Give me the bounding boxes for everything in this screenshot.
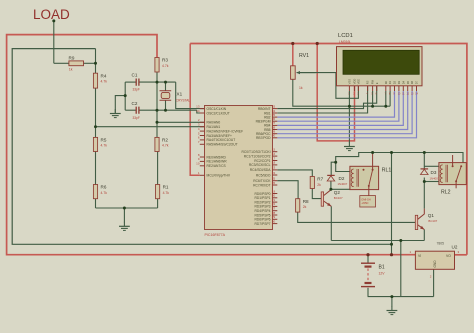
wire C1-C2 left column: [124, 82, 126, 110]
wire RB1 to LCD RS: [277, 86, 367, 113]
svg-text:D4: D4: [401, 80, 405, 84]
svg-text:RE0/AN5/RD: RE0/AN5/RD: [207, 155, 227, 159]
svg-text:15: 15: [272, 148, 276, 152]
svg-text:D1: D1: [388, 80, 392, 84]
svg-text:10: 10: [196, 162, 200, 166]
svg-text:PIC16F877A: PIC16F877A: [205, 233, 226, 237]
svg-text:RA4/T0CKI/C1OUT: RA4/T0CKI/C1OUT: [207, 138, 236, 142]
svg-text:7805: 7805: [437, 242, 445, 246]
crystal X1: [160, 91, 191, 103]
svg-text:D7: D7: [415, 80, 419, 84]
svg-text:R4: R4: [101, 73, 107, 78]
svg-text:18: 18: [272, 161, 276, 165]
wire D3 anode to Q1 collector: [423, 178, 425, 209]
wire R3-R2 column: [156, 72, 158, 137]
wire R7 to Q2 base: [312, 189, 321, 199]
ground below R6 R1: [119, 222, 130, 231]
junction dots: [52, 19, 55, 22]
microcontroller U1 PIC16F877A: [196, 104, 277, 236]
svg-text:RW: RW: [371, 79, 375, 84]
svg-text:RB7/PGD: RB7/PGD: [256, 136, 271, 140]
wire to D3 cathode / RL2 coil: [423, 153, 425, 169]
wire R9 left lead: [54, 62, 69, 64]
svg-text:Q1: Q1: [428, 213, 435, 218]
svg-text:D3: D3: [431, 170, 437, 175]
svg-text:R8: R8: [303, 199, 309, 204]
wire relay supply run to RL2 contact: [336, 153, 463, 163]
svg-text:R9: R9: [69, 56, 75, 61]
wire loop to R4 node: [95, 49, 97, 64]
resistor R5: [93, 137, 107, 151]
resistor R6: [93, 185, 107, 199]
svg-text:1k: 1k: [299, 86, 303, 90]
wire RB6 to LCD D6: [277, 91, 412, 134]
capacitor C1: [132, 73, 140, 92]
svg-text:LCD1: LCD1: [338, 33, 353, 39]
wire R8 to Q1 base: [298, 212, 416, 222]
wire D1 down to gnd line: [389, 91, 391, 106]
svg-text:14: 14: [196, 109, 200, 113]
wire RC6 to R8: [277, 181, 298, 199]
wire 7805 VO to 5V rail: [455, 254, 467, 256]
wire RW down to gnd line: [372, 91, 374, 106]
svg-text:VO: VO: [446, 254, 451, 258]
resistor R8: [296, 199, 309, 212]
wire C2 left lead: [125, 109, 136, 111]
svg-text:26: 26: [272, 181, 276, 185]
svg-text:OMI-SH: OMI-SH: [361, 198, 370, 202]
svg-text:R3: R3: [162, 58, 168, 63]
svg-text:RA5/AN4/SS/C2OUT: RA5/AN4/SS/C2OUT: [207, 143, 238, 147]
svg-text:2k: 2k: [317, 183, 321, 187]
svg-text:D2: D2: [339, 176, 345, 181]
capacitor C2: [132, 101, 140, 120]
wire node to D2 cathode: [331, 162, 336, 175]
svg-text:D3: D3: [397, 80, 401, 84]
wire RB7 to LCD D7: [277, 91, 416, 138]
wire node to RL1 coil top: [336, 162, 350, 171]
svg-text:1k: 1k: [69, 68, 73, 72]
svg-text:Q2: Q2: [334, 190, 341, 195]
wire RC4 to R7: [277, 170, 312, 177]
wire RL2 coil top stub: [424, 165, 439, 167]
svg-text:RC0/T1OSO/T1CKI: RC0/T1OSO/T1CKI: [242, 150, 271, 154]
wire R2-R1 column: [157, 152, 159, 185]
wire to OSC1 pin 13: [176, 82, 205, 109]
svg-text:RL2: RL2: [441, 190, 451, 196]
svg-text:LM016L: LM016L: [339, 40, 351, 44]
resistor R4: [93, 73, 107, 88]
wire D2 anode to Q2 collector: [330, 181, 332, 189]
wire R6 bottom: [95, 199, 97, 208]
voltage regulator U2 7805: [410, 242, 460, 279]
svg-text:X1: X1: [177, 92, 183, 97]
svg-text:C2: C2: [132, 101, 138, 106]
svg-text:1N4007: 1N4007: [430, 177, 440, 181]
svg-text:RA2/AN2/VREF-/CVREF: RA2/AN2/VREF-/CVREF: [207, 129, 244, 133]
wire R1 bottom: [157, 199, 159, 208]
svg-text:30: 30: [272, 219, 276, 223]
wire R5-R6 column: [95, 152, 97, 185]
svg-text:13: 13: [196, 104, 200, 108]
svg-text:CRYSTAL: CRYSTAL: [176, 99, 191, 103]
wire 7805 GND pin 2 down: [433, 269, 435, 296]
svg-text:B1: B1: [379, 265, 385, 271]
relay RL2: [439, 155, 466, 196]
battery B1 12V: [361, 263, 385, 286]
svg-text:R2: R2: [162, 138, 168, 143]
svg-text:1N4007: 1N4007: [338, 182, 348, 186]
svg-text:C1: C1: [132, 73, 138, 78]
svg-text:4.7k: 4.7k: [101, 144, 108, 148]
svg-text:RA1/AN1: RA1/AN1: [207, 125, 221, 129]
svg-text:VSS: VSS: [348, 79, 352, 84]
resistor R2: [155, 137, 169, 151]
svg-text:RB0/INT: RB0/INT: [258, 107, 271, 111]
LCD display LCD1 LM016L: [337, 33, 423, 96]
wire cap node to ground: [115, 96, 125, 113]
svg-text:RC3/SCK/SCL: RC3/SCK/SCL: [249, 163, 271, 167]
wire RB3 to LCD D3: [277, 91, 399, 121]
svg-text:24: 24: [272, 171, 276, 175]
transistor Q2 BC107: [321, 190, 343, 207]
wire RB2 to LCD D2: [277, 91, 394, 117]
svg-text:VEE: VEE: [357, 79, 361, 84]
svg-text:OSC1/CLKIN: OSC1/CLKIN: [207, 107, 227, 111]
ground near C1 C2: [110, 109, 121, 118]
svg-text:OSC2/CLKOUT: OSC2/CLKOUT: [207, 111, 230, 115]
wire X1 top lead: [165, 82, 167, 91]
wire 5V red rail: top and right edge from 7805 VO: [190, 44, 467, 255]
wire Q2 emitter down: [330, 206, 332, 240]
svg-text:17: 17: [272, 156, 276, 160]
resistor R9: [69, 56, 84, 72]
wire B1 positive lead: [367, 255, 369, 263]
wire bottom ground rail: [368, 296, 434, 298]
wire 12V red loop: R3 top / left / bottom rail to 7805 VI: [7, 35, 416, 255]
relay RL1: [350, 153, 392, 208]
potentiometer RV1: [291, 53, 316, 90]
wire LOAD return loop left/bottom: [12, 49, 391, 245]
svg-text:4.7k: 4.7k: [101, 80, 108, 84]
wire R6-R1 bottom join: [96, 207, 158, 209]
svg-text:MCLR/Vpp/THV: MCLR/Vpp/THV: [207, 174, 231, 178]
ground for LCD VSS: [344, 142, 355, 151]
svg-text:RD7/PSP7: RD7/PSP7: [255, 222, 271, 226]
wire Q1 emitter down: [423, 230, 425, 241]
resistor R3: [155, 58, 169, 73]
svg-text:16: 16: [272, 152, 276, 156]
wire VSS up: [348, 91, 350, 106]
svg-text:R5: R5: [101, 138, 107, 143]
svg-text:BC107: BC107: [334, 196, 343, 200]
diode D2: [327, 175, 348, 185]
wire to OSC2 pin 14: [197, 110, 205, 113]
svg-text:-205D: -205D: [361, 201, 368, 205]
svg-text:33pF: 33pF: [133, 88, 140, 92]
wire R4 top lead: [95, 63, 97, 73]
svg-text:23: 23: [272, 166, 276, 170]
svg-text:D5: D5: [406, 80, 410, 84]
wire divider node to RA0: [157, 121, 205, 123]
svg-text:4.7k: 4.7k: [162, 64, 169, 68]
wire relay rail down to 12V: [391, 153, 393, 255]
wire C2 right to X1 bottom node: [139, 109, 197, 111]
svg-text:RE2/AN7/CS: RE2/AN7/CS: [207, 164, 227, 168]
transistor Q1 BC107: [415, 209, 437, 230]
wire emitter line to ground rail: [400, 241, 402, 297]
svg-text:D6: D6: [410, 80, 414, 84]
svg-text:R6: R6: [101, 185, 107, 190]
svg-text:RE1/AN6/WR: RE1/AN6/WR: [207, 160, 228, 164]
svg-text:40: 40: [272, 134, 276, 138]
wire D0 down to gnd line: [385, 91, 387, 106]
svg-text:RL1: RL1: [382, 168, 392, 174]
svg-text:RC5/SDO: RC5/SDO: [256, 173, 271, 177]
svg-text:4.7k: 4.7k: [101, 191, 108, 195]
wire RB0 to LCD E: [277, 86, 376, 109]
wire C1 right to X1 top node: [139, 81, 176, 83]
svg-text:E: E: [375, 82, 379, 84]
svg-text:33: 33: [272, 104, 276, 108]
wire divider node to RA1: [96, 126, 205, 128]
svg-text:12V: 12V: [379, 272, 386, 276]
resistor R1: [156, 185, 170, 199]
svg-text:RC2/CCP1: RC2/CCP1: [254, 159, 270, 163]
wire 5V to RV1 top: [292, 44, 294, 66]
svg-text:D2: D2: [393, 80, 397, 84]
ground for battery: [387, 306, 398, 315]
wire emitter join line: [331, 240, 424, 242]
svg-text:2k: 2k: [303, 205, 307, 209]
wire RB5 to LCD D5: [277, 91, 407, 130]
wire RL2 coil bottom stub: [424, 181, 439, 183]
svg-text:4.7k: 4.7k: [163, 191, 170, 195]
wire RV1 wiper to LCD VEE: [297, 73, 359, 99]
svg-text:33pF: 33pF: [133, 116, 140, 120]
wire B1 negative lead: [367, 288, 369, 297]
wire X1 bottom lead: [165, 100, 167, 110]
svg-text:RA3/AN3/VREF+: RA3/AN3/VREF+: [207, 134, 232, 138]
wire R4-R5 column: [95, 88, 97, 137]
wire VSS to ground symbol: [348, 106, 350, 142]
wire to center ground: [123, 208, 125, 222]
wire C1 left lead: [125, 81, 136, 83]
svg-text:R7: R7: [317, 177, 323, 182]
junction dots on power rails: [291, 42, 294, 45]
svg-text:RS: RS: [366, 80, 370, 84]
wire RV1 bottom / LCD ground line: [293, 79, 390, 106]
diode D3: [421, 169, 440, 181]
wire 5V to MCLR pull-up: [190, 44, 200, 176]
wire RB4 to LCD D4: [277, 91, 403, 125]
wire Q2 collector to RL1 coil bottom: [331, 188, 350, 190]
wire to battery ground: [391, 297, 393, 307]
svg-text:RC1/T1OSI/CCP2: RC1/T1OSI/CCP2: [244, 154, 271, 158]
wire LOAD node down: [53, 21, 55, 63]
svg-text:U2: U2: [452, 245, 458, 250]
svg-text:BC107: BC107: [428, 219, 437, 223]
svg-text:R1: R1: [163, 185, 169, 190]
wire 5V drop to LCD VDD: [317, 44, 354, 141]
svg-text:VDD: VDD: [353, 79, 357, 85]
svg-text:LOAD: LOAD: [33, 7, 70, 22]
svg-text:GND: GND: [433, 260, 437, 268]
resistor R7: [310, 177, 323, 189]
svg-text:RA0/AN0: RA0/AN0: [207, 121, 221, 125]
svg-text:RC7/RX/DT: RC7/RX/DT: [253, 183, 270, 187]
svg-text:RV1: RV1: [299, 53, 309, 59]
wire R9 right lead: [84, 62, 96, 64]
svg-text:VI: VI: [418, 254, 421, 258]
svg-text:D0: D0: [384, 80, 388, 84]
svg-text:4.7k: 4.7k: [162, 144, 169, 148]
svg-text:RC4/SDI/SDA: RC4/SDI/SDA: [250, 168, 272, 172]
